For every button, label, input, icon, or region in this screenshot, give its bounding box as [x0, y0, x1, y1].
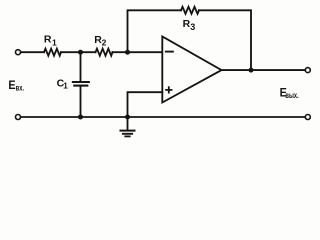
label R3 [183, 18, 196, 32]
node: junction R2/R3/op-amp input [125, 50, 130, 55]
resistor R2 [96, 49, 113, 56]
wire [61, 51, 96, 53]
svg-text:1: 1 [63, 80, 68, 90]
label C1 [57, 77, 69, 90]
node: output/feedback junction [249, 68, 254, 73]
wire: op-amp output [221, 69, 305, 71]
capacitor C1 [73, 52, 89, 117]
svg-text:вых.: вых. [285, 92, 298, 100]
label Евых (output) [280, 87, 299, 100]
wire: bottom rail [21, 116, 305, 118]
label R1 [44, 33, 57, 47]
node: C1 to bottom rail [78, 115, 83, 120]
wire: non-inverting input to ground rail [128, 92, 163, 117]
output terminal (top right) [305, 68, 310, 73]
minus sign (inverting input) [166, 51, 173, 53]
svg-text:3: 3 [190, 22, 195, 32]
bottom rail terminal (right) [305, 115, 310, 120]
op-amp U1 [162, 37, 221, 103]
input terminal (top left) [16, 50, 21, 55]
svg-text:2: 2 [102, 37, 107, 47]
wire: feedback up + top run to R3 [128, 10, 182, 52]
node: ground junction [125, 115, 130, 120]
label R2 [94, 34, 106, 48]
wire: top run right + down to output node [199, 10, 251, 70]
label Евх (input) [8, 79, 24, 92]
ground [121, 117, 135, 136]
svg-text:Е: Е [8, 79, 15, 92]
svg-text:вх.: вх. [16, 85, 24, 93]
bottom rail terminal (left) [16, 115, 21, 120]
resistor R3 [181, 7, 199, 14]
node: junction R1/R2/C1 [78, 50, 83, 55]
wire [113, 51, 163, 53]
resistor R1 [44, 49, 61, 56]
plus sign (non-inverting input) [166, 87, 171, 92]
wire [21, 51, 44, 53]
svg-text:1: 1 [52, 37, 57, 47]
svg-text:R: R [44, 33, 52, 45]
